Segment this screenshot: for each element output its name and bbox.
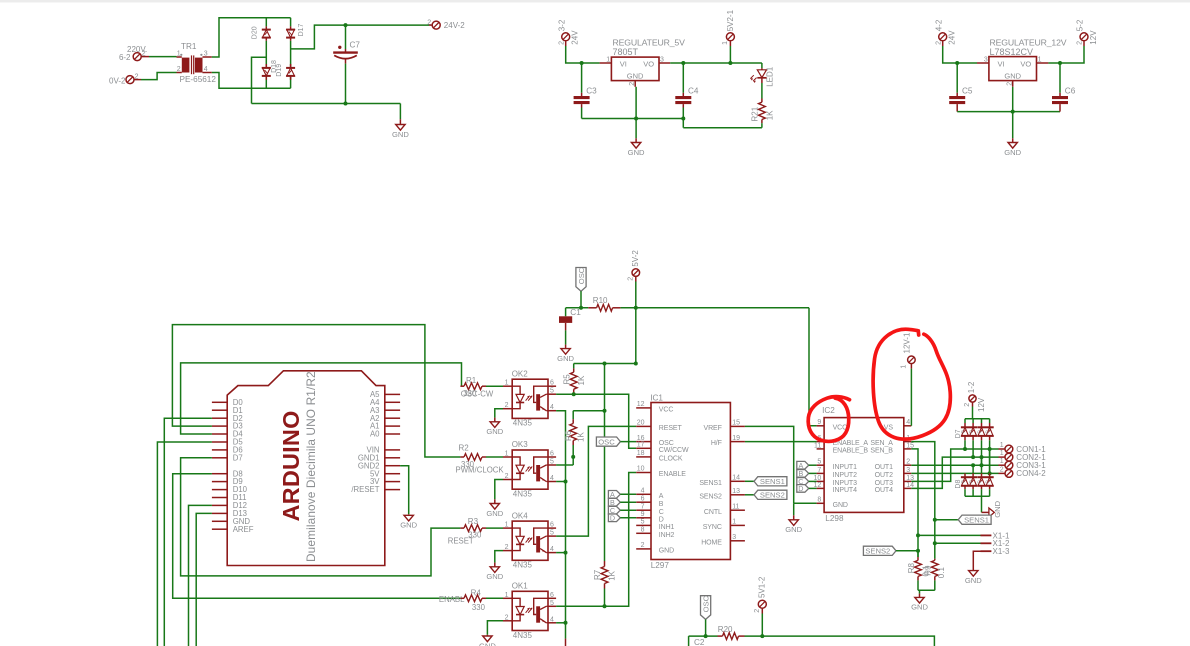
- resistor R1 330 OSC-CW: [460, 376, 503, 398]
- pin 7 INPUT2 of IC2: [817, 467, 858, 479]
- pin 5V of ARDUINO: [370, 469, 400, 478]
- wire 220V to TR1 pin1: [149, 56, 177, 58]
- svg-text:4: 4: [550, 546, 554, 553]
- svg-text:1: 1: [722, 41, 729, 45]
- pin D3 of ARDUINO: [212, 422, 243, 431]
- resistor R3 330 RESET: [448, 517, 503, 546]
- svg-text:VO: VO: [643, 60, 654, 69]
- svg-text:Duemilanove Diecimila UNO R1: Duemilanove Diecimila UNO R1/R2: [304, 371, 318, 562]
- svg-text:GND: GND: [965, 576, 982, 585]
- svg-text:4: 4: [204, 66, 208, 73]
- svg-text:C1: C1: [570, 308, 581, 317]
- svg-text:1: 1: [1000, 442, 1004, 449]
- svg-text:SENS2: SENS2: [865, 547, 890, 556]
- svg-text:C3: C3: [586, 87, 597, 96]
- pin 3 HOME of IC1: [701, 534, 745, 546]
- svg-text:2: 2: [964, 403, 971, 407]
- pin 9 VCC of IC2: [817, 419, 848, 431]
- svg-text:4: 4: [906, 419, 910, 426]
- wire OUT2 to CON4-2 row: [911, 472, 998, 474]
- svg-text:GND: GND: [557, 354, 574, 363]
- pin 8 INH2 of IC1: [636, 527, 674, 539]
- pin 4 VS of IC2: [884, 419, 912, 431]
- pin D1 of ARDUINO: [212, 406, 243, 415]
- svg-text:OUT4: OUT4: [875, 487, 893, 494]
- svg-text:C4: C4: [688, 87, 699, 96]
- svg-text:3: 3: [660, 57, 664, 64]
- svg-text:RESET: RESET: [448, 537, 474, 546]
- svg-text:CON4-2: CON4-2: [1016, 469, 1046, 478]
- svg-text:GND: GND: [627, 72, 644, 81]
- wire D7 columns to CON rows: [964, 440, 966, 449]
- wire D2 down to bottom edge: [164, 418, 212, 646]
- diode array D8: [955, 473, 994, 496]
- diode D18: [262, 60, 278, 80]
- svg-text:3-2: 3-2: [557, 19, 566, 31]
- net label OSC top: [576, 267, 586, 310]
- svg-text:0V-2: 0V-2: [109, 77, 126, 86]
- svg-text:PWM/CLOCK: PWM/CLOCK: [456, 466, 505, 475]
- svg-text:330: 330: [472, 603, 486, 612]
- resistor R2 330 PWM/CLOCK: [456, 444, 505, 475]
- resistor R6 1K pull-up: [564, 409, 607, 465]
- svg-text:HOME: HOME: [701, 539, 722, 546]
- svg-text:4-2: 4-2: [934, 19, 943, 31]
- pin 3V of ARDUINO: [370, 477, 400, 486]
- svg-text:D: D: [798, 484, 803, 493]
- pin 1 SYNC of IC1: [703, 519, 745, 531]
- pin D9 of ARDUINO: [212, 477, 243, 486]
- pin D11 of ARDUINO: [212, 493, 247, 502]
- svg-text:2: 2: [935, 41, 942, 45]
- capacitor C1: [559, 308, 581, 345]
- svg-text:OUT2: OUT2: [875, 472, 893, 479]
- svg-text:AREF: AREF: [233, 525, 254, 534]
- pin 16 OSC of IC1: [636, 435, 674, 447]
- connector 5V-2: [628, 250, 640, 282]
- svg-text:GND: GND: [1004, 148, 1021, 157]
- pin D5 of ARDUINO: [212, 438, 243, 447]
- connector 5V1-2: [754, 576, 767, 636]
- svg-text:12V-1: 12V-1: [903, 332, 912, 353]
- svg-text:SENS1: SENS1: [760, 477, 785, 486]
- svg-text:IC2: IC2: [822, 406, 835, 415]
- pin 12 VCC of IC1: [636, 401, 673, 413]
- pin 10 INPUT3 of IC2: [814, 475, 858, 487]
- pin X1-2: [935, 539, 1010, 548]
- svg-text:SYNC: SYNC: [703, 524, 722, 531]
- ground GND of 5V regulator: [628, 87, 645, 157]
- net label D at IC2: [797, 484, 817, 493]
- pin A5 of ARDUINO: [370, 390, 400, 399]
- svg-text:GND: GND: [993, 500, 1002, 517]
- svg-text:D7: D7: [233, 453, 243, 462]
- svg-text:/RESET: /RESET: [351, 485, 379, 494]
- svg-text:2: 2: [558, 41, 565, 45]
- annotation red circle around 12V-1: [873, 329, 950, 439]
- net label A at IC2: [797, 461, 817, 470]
- svg-text:GND: GND: [400, 521, 417, 530]
- svg-text:4: 4: [550, 616, 554, 623]
- wire D4 to R1 OSC-CW: [181, 363, 462, 434]
- svg-text:4N35: 4N35: [513, 419, 533, 428]
- svg-text:R10: R10: [593, 296, 608, 305]
- wire bridge column D17/D19: [290, 18, 292, 27]
- svg-text:INH2: INH2: [659, 532, 675, 539]
- svg-text:2: 2: [505, 473, 509, 480]
- pin A3 of ARDUINO: [370, 406, 400, 415]
- svg-text:5: 5: [550, 388, 554, 395]
- svg-text:6: 6: [550, 592, 554, 599]
- svg-text:24V: 24V: [571, 30, 580, 45]
- svg-text:TR1: TR1: [181, 42, 197, 51]
- IC U2 IC2 L298: [822, 406, 904, 523]
- wire IC2 GND row: [794, 502, 817, 504]
- capacitor C5: [949, 63, 973, 112]
- svg-text:6: 6: [550, 380, 554, 387]
- svg-text:4N35: 4N35: [513, 561, 533, 570]
- wire H/F to ENABLE_A of IC2: [745, 441, 817, 443]
- pin AREF of ARDUINO: [212, 525, 254, 534]
- svg-text:GND: GND: [911, 603, 928, 612]
- pin 2 GND of IC1: [636, 542, 674, 554]
- connector 5-2 12V output: [1076, 19, 1098, 63]
- svg-text:SENS1: SENS1: [964, 515, 989, 524]
- svg-text:OUT3: OUT3: [875, 480, 893, 487]
- wire D5 down to bottom edge: [157, 442, 212, 646]
- wire OK1 pin5 to ENABLE: [556, 473, 636, 607]
- svg-text:R7: R7: [593, 569, 602, 580]
- svg-text:6: 6: [550, 522, 554, 529]
- svg-text:VI: VI: [620, 60, 627, 69]
- diode D17: [286, 23, 305, 40]
- pin GND1 of ARDUINO: [358, 453, 400, 462]
- ground GND of OK3: [486, 480, 503, 518]
- pin A4 of ARDUINO: [370, 398, 400, 407]
- svg-text:OSC: OSC: [701, 595, 710, 612]
- svg-text:13: 13: [732, 488, 740, 495]
- svg-text:IC1: IC1: [650, 393, 663, 402]
- svg-text:24V-2: 24V-2: [444, 21, 465, 30]
- net label SENS1 near connectors: [935, 515, 991, 524]
- svg-text:2: 2: [1006, 82, 1013, 86]
- ground GND of OK1: [479, 621, 503, 646]
- diode D20: [252, 26, 271, 40]
- svg-text:GND: GND: [1004, 72, 1021, 81]
- connector CON2-1: [999, 450, 1047, 462]
- resistor R8 0.1: [907, 551, 931, 591]
- svg-text:SEN_B: SEN_B: [870, 448, 893, 455]
- module ARDUINO Duemilanove: [227, 371, 385, 566]
- svg-text:OK4: OK4: [512, 511, 529, 520]
- wire bridge ground rail: [252, 103, 401, 105]
- wire 24V input row: [566, 46, 600, 63]
- pin X1-1: [918, 531, 1010, 540]
- wire diode array 12V rail: [965, 418, 990, 420]
- svg-text:PE-65612: PE-65612: [180, 75, 217, 84]
- svg-text:2: 2: [628, 277, 635, 281]
- resistor R9 0.1: [924, 559, 946, 591]
- wire D13 down to bottom edge: [196, 513, 212, 646]
- svg-text:7: 7: [641, 503, 645, 510]
- svg-text:OSC: OSC: [577, 267, 586, 284]
- LED LED1: [750, 63, 774, 87]
- svg-text:H/F: H/F: [711, 440, 722, 447]
- svg-text:GND: GND: [628, 148, 645, 157]
- optocoupler OK4 4N35: [503, 511, 556, 569]
- svg-text:0.1: 0.1: [937, 567, 946, 579]
- pin D0 of ARDUINO: [212, 398, 243, 407]
- wire 5V rail above IC1: [574, 363, 636, 365]
- node emitter bus junction OK3 pin4: [556, 481, 565, 483]
- svg-text:L297: L297: [651, 561, 670, 570]
- wire SEN_A to SENS1 and R9: [911, 442, 935, 559]
- svg-text:10: 10: [637, 466, 645, 473]
- svg-text:C2: C2: [694, 638, 705, 646]
- regulator U L78S12CV REGULATEUR_12V: [977, 37, 1067, 86]
- capacitor C2: [689, 636, 705, 646]
- svg-text:4: 4: [550, 475, 554, 482]
- svg-text:VCC: VCC: [659, 407, 674, 414]
- pin 15 SEN_B of IC2: [870, 442, 914, 454]
- connector 4-2 24V feed: [934, 19, 956, 46]
- connector CON4-2: [999, 466, 1047, 478]
- wire OUT1 to CON3-1 row: [911, 464, 998, 466]
- svg-text:D: D: [610, 514, 615, 523]
- svg-text:INPUT2: INPUT2: [833, 472, 858, 479]
- svg-text:SENS2: SENS2: [760, 491, 785, 500]
- wire SEN_B to SENS2 and R8: [911, 449, 918, 557]
- svg-text:OK1: OK1: [512, 582, 529, 591]
- svg-text:1: 1: [505, 380, 509, 387]
- svg-text:R20: R20: [718, 625, 733, 634]
- ground GND of PSU: [392, 104, 409, 139]
- net label OSC at IC1 pin 16: [596, 437, 636, 446]
- pin 5 INPUT1 of IC2: [817, 459, 858, 471]
- pin 14 SENS1 of IC1: [699, 475, 745, 487]
- svg-text:C6: C6: [1065, 87, 1076, 96]
- svg-text:SEN_A: SEN_A: [870, 440, 893, 447]
- ground GND of ARDUINO GND2: [400, 466, 418, 530]
- pin 2 OUT1 of IC2: [875, 459, 912, 471]
- wire 0V-2 to TR1 pin2: [141, 73, 177, 80]
- svg-text:VREF: VREF: [704, 425, 722, 432]
- svg-text:GND: GND: [392, 130, 409, 139]
- svg-text:C7: C7: [350, 41, 361, 50]
- svg-text:1: 1: [505, 522, 509, 529]
- pin /RESET of ARDUINO: [351, 485, 400, 494]
- svg-text:R21: R21: [750, 106, 759, 121]
- pin 20 RESET of IC1: [636, 420, 682, 432]
- wire OK2 pin5 to CW/CCW: [556, 394, 636, 448]
- svg-text:18: 18: [637, 450, 645, 457]
- svg-text:C: C: [659, 509, 664, 516]
- svg-text:2: 2: [177, 66, 181, 73]
- wire 5V-2 down to VCC rail: [635, 282, 637, 364]
- pin D7 of ARDUINO: [212, 453, 243, 462]
- connector CON1-1: [999, 442, 1047, 454]
- svg-text:5V1-2: 5V1-2: [758, 576, 767, 598]
- pin 7 C of IC1: [636, 503, 664, 515]
- wire 5V gnd rail: [582, 118, 684, 120]
- wire VO 12V row: [1048, 62, 1083, 64]
- pin 10 ENABLE of IC1: [636, 466, 686, 478]
- node emitter bus junction OK4 pin4: [556, 552, 565, 554]
- wire D12 down to bottom edge: [189, 505, 212, 646]
- svg-text:R5: R5: [562, 374, 571, 385]
- svg-text:C5: C5: [962, 87, 973, 96]
- svg-text:11: 11: [814, 442, 821, 449]
- svg-text:INPUT1: INPUT1: [833, 464, 858, 471]
- diode array D7: [955, 419, 994, 441]
- pin 1 SEN_A of IC2: [870, 435, 911, 447]
- wire bridge output node to 24V rail: [291, 25, 429, 49]
- svg-text:ARDUINO: ARDUINO: [278, 410, 304, 521]
- wire OK3 pin5 to R6: [556, 464, 573, 466]
- net label SENS2 near R8: [863, 546, 918, 555]
- pin D2 of ARDUINO: [212, 414, 243, 423]
- wire OUT4 up to CON2-1 row: [911, 457, 998, 488]
- capacitor C3: [574, 63, 598, 119]
- svg-text:SENS2: SENS2: [699, 493, 722, 500]
- svg-text:INH1: INH1: [659, 524, 675, 531]
- svg-text:5V2-1: 5V2-1: [726, 9, 735, 31]
- ground GND of 12V regulator: [1004, 87, 1021, 157]
- svg-text:D: D: [659, 516, 664, 523]
- pin VIN of ARDUINO: [367, 446, 401, 455]
- svg-text:14: 14: [732, 475, 740, 482]
- svg-text:CW/CCW: CW/CCW: [659, 447, 689, 454]
- svg-text:12V: 12V: [977, 397, 986, 412]
- pin D8 of ARDUINO: [212, 469, 243, 478]
- connector 24V-2: [427, 19, 465, 30]
- capacitor C4: [675, 63, 699, 128]
- svg-text:2: 2: [641, 542, 645, 549]
- wire R10 row: [566, 307, 589, 309]
- svg-text:2: 2: [505, 614, 509, 621]
- net label C at IC1: [608, 506, 636, 515]
- pin 11 CNTL of IC1: [704, 503, 745, 515]
- net label C at IC2: [797, 477, 817, 486]
- svg-text:OK3: OK3: [512, 440, 529, 449]
- svg-text:VI: VI: [998, 60, 1005, 69]
- svg-text:2: 2: [629, 82, 636, 86]
- pin D6 of ARDUINO: [212, 446, 243, 455]
- svg-text:9: 9: [817, 419, 821, 426]
- net label SENS2 at IC1 pin 13: [745, 490, 787, 499]
- svg-text:19: 19: [732, 435, 740, 442]
- svg-text:GND: GND: [486, 427, 503, 436]
- svg-text:1: 1: [1000, 450, 1004, 457]
- svg-text:OK2: OK2: [512, 369, 529, 378]
- svg-text:2: 2: [505, 544, 509, 551]
- svg-text:5: 5: [817, 459, 821, 466]
- ground GND below IC2: [785, 503, 802, 534]
- capacitor C7: [333, 25, 360, 103]
- svg-text:11: 11: [732, 503, 739, 510]
- svg-text:3: 3: [204, 50, 208, 57]
- connector CON3-1: [999, 458, 1047, 470]
- svg-text:20: 20: [637, 420, 645, 427]
- svg-text:X1-3: X1-3: [993, 547, 1010, 556]
- svg-text:1: 1: [505, 592, 509, 599]
- svg-text:CLOCK: CLOCK: [659, 456, 683, 463]
- pin 17 CW/CCW of IC1: [636, 442, 689, 454]
- svg-text:1: 1: [606, 57, 610, 64]
- svg-text:L298: L298: [825, 514, 844, 523]
- svg-text:6: 6: [550, 451, 554, 458]
- resistor R4 330 ENABL: [439, 588, 503, 612]
- pin GND of ARDUINO: [212, 517, 250, 526]
- wire D8 columns up to CON rows: [964, 472, 966, 474]
- wire OUT3 up to CON1-1 row: [911, 449, 998, 481]
- connector 1-2 12V feed of diode array: [964, 381, 986, 419]
- svg-text:GND: GND: [659, 548, 674, 555]
- pin 12 INPUT4 of IC2: [814, 482, 858, 494]
- svg-text:2: 2: [754, 609, 761, 613]
- svg-text:SENS1: SENS1: [699, 480, 722, 487]
- svg-text:B: B: [659, 501, 664, 508]
- wire RESET from IC1 to OK4 pin5: [556, 426, 636, 536]
- svg-text:1K: 1K: [576, 432, 585, 442]
- svg-text:ENABLE_B: ENABLE_B: [833, 448, 869, 455]
- wire R8 R9 ground rail: [918, 589, 935, 591]
- svg-text:9: 9: [641, 511, 645, 518]
- capacitor C6: [1052, 63, 1076, 112]
- svg-text:ENABLE: ENABLE: [659, 471, 686, 478]
- svg-text:6-2: 6-2: [119, 53, 131, 62]
- svg-text:7805T: 7805T: [613, 47, 639, 57]
- svg-text:3: 3: [732, 534, 736, 541]
- svg-text:7: 7: [817, 467, 821, 474]
- pin 13 OUT3 of IC2: [875, 475, 914, 487]
- pin A0 of ARDUINO: [370, 430, 400, 439]
- optocoupler OK1 4N35: [503, 582, 556, 640]
- svg-text:5: 5: [550, 459, 554, 466]
- pin A2 of ARDUINO: [370, 414, 400, 423]
- optocoupler OK2 4N35: [503, 369, 556, 427]
- ground GND of R8 R9: [911, 590, 928, 611]
- svg-text:GND: GND: [785, 525, 802, 534]
- svg-text:A0: A0: [370, 430, 380, 439]
- wire OK2 pin4 to emitter bus: [556, 411, 565, 639]
- svg-text:GND: GND: [486, 572, 503, 581]
- svg-text:4N35: 4N35: [513, 631, 533, 640]
- pin D13 of ARDUINO: [212, 509, 247, 518]
- pin X1-3: [973, 547, 1010, 571]
- wire D8 to R4 ENABL: [173, 474, 461, 599]
- wire VO 5V row: [670, 62, 762, 64]
- svg-text:24V: 24V: [948, 30, 957, 45]
- pin 6 ENABLE_A of IC2: [817, 435, 869, 447]
- resistor R21 1K: [750, 83, 774, 128]
- wire bottom RC row: [689, 635, 718, 637]
- svg-text:4: 4: [641, 488, 645, 495]
- svg-text:15: 15: [732, 420, 740, 427]
- svg-text:1: 1: [901, 365, 908, 369]
- wire R20 to bottom right: [745, 636, 935, 646]
- ground GND of OK4: [486, 551, 503, 582]
- resistor R7 1K pull-up: [593, 364, 617, 607]
- wire VCC feed to IC2: [809, 308, 817, 426]
- ground GND of X1-3: [965, 571, 982, 585]
- svg-text:4: 4: [550, 404, 554, 411]
- annotation red circle around IC2 VCC: [808, 397, 849, 442]
- svg-text:17: 17: [637, 442, 645, 449]
- resistor R5 1K pull-up: [562, 364, 586, 395]
- wire D3 to R2 PWM/CLOCK: [172, 325, 460, 457]
- wire 24V to VI row: [943, 46, 977, 63]
